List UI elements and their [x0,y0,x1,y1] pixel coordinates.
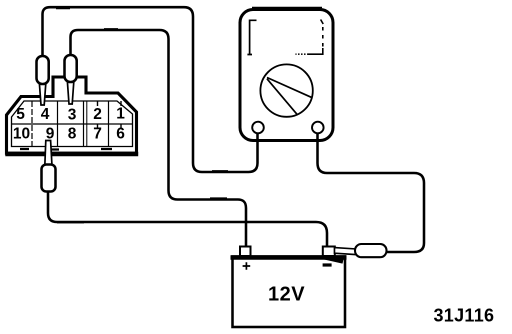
svg-text:7: 7 [93,126,102,143]
multimeter left terminal [256,131,259,141]
wire W3: probe in pin 9 to battery negative terminal [48,190,327,247]
multimeter body [240,10,333,141]
multimeter right terminal [316,131,319,141]
connector body outer outline [7,77,137,153]
probe P4 clip dark wedge [323,257,343,262]
test probe P2 in pin 3: tip [67,79,74,104]
multimeter top edge thickening [252,7,322,9]
wire W2: probe in pin 3 to battery positive terminal [71,30,247,247]
test probe P2 in pin 3: handle [65,55,77,82]
svg-text:8: 8 [68,126,77,143]
test probe P1 in pin 4: handle [37,56,49,84]
multimeter dial [260,64,312,116]
svg-text:31J116: 31J116 [434,306,495,326]
battery plus sign [243,262,251,270]
svg-text:2: 2 [93,106,102,123]
test probe P3 below pin 9: tip [45,141,52,167]
battery minus sign [323,263,332,266]
wire W4: multimeter right terminal to probe on battery negative [318,131,425,252]
multimeter needle [267,78,311,115]
probe P4 on battery negative terminal: body [355,244,387,257]
connector body inner outline [12,101,133,147]
svg-text:5: 5 [16,106,25,123]
battery negative terminal [323,247,335,257]
test probe P1 in pin 4: tip [39,81,46,105]
connector outer bottom thick edge [5,152,138,156]
probe P4 on battery negative terminal: shaft [335,248,357,255]
svg-text:12V: 12V [268,284,305,306]
svg-text:6: 6 [116,126,125,143]
wire W1: probe in pin 4 to multimeter left terminal [43,7,258,172]
multimeter display right bracket [321,20,324,25]
battery top thick edge [231,255,347,260]
svg-text:4: 4 [41,106,50,123]
svg-text:1: 1 [116,106,125,123]
connector grid column dividers [31,101,33,147]
svg-text:3: 3 [68,107,77,124]
multimeter display left bracket [247,20,256,54]
battery positive terminal [240,247,251,257]
scan texture ticks on wires [56,8,228,222]
battery body [233,257,346,328]
test probe P3 below pin 9: handle [42,165,56,192]
connector pin slot ticks [97,101,99,106]
svg-text:10: 10 [13,126,30,143]
connector grid row divider [12,123,133,125]
scan dashes along connector bottom [20,148,112,151]
